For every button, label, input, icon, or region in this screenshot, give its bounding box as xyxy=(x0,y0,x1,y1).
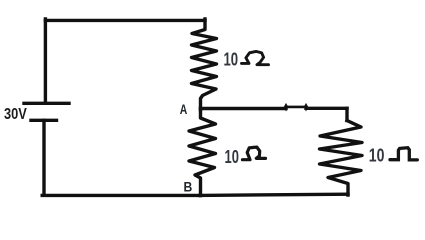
junction mark left on A wire xyxy=(284,104,288,111)
svg-text:10: 10 xyxy=(225,146,239,167)
junction mark right on A wire xyxy=(304,104,308,111)
svg-text:A: A xyxy=(180,102,188,117)
wire left vertical upper xyxy=(44,19,47,102)
svg-text:30V: 30V xyxy=(4,106,27,123)
ohm symbol of R3 (hand drawn squared omega) xyxy=(390,148,417,160)
wire top from battery to R1 xyxy=(45,19,205,22)
wire left vertical lower xyxy=(42,120,45,195)
battery V1 bottom plate xyxy=(31,119,57,122)
battery V1 top plate xyxy=(24,102,69,105)
resistor R1 zigzag xyxy=(192,19,217,110)
wire right vertical down to R3 xyxy=(345,108,348,120)
svg-text:10: 10 xyxy=(369,146,385,166)
resistor R3 zigzag xyxy=(320,121,363,196)
svg-text:10: 10 xyxy=(224,49,239,70)
svg-text:B: B xyxy=(184,179,193,195)
wire right switch mark to corner xyxy=(306,107,347,110)
resistor R2 zigzag xyxy=(189,109,216,196)
ohm symbol of R1 (hand drawn omega) xyxy=(242,51,269,64)
wire segment between switch marks xyxy=(286,106,306,109)
wire bottom from node B to R3 xyxy=(200,194,348,195)
wire bottom from battery to node B xyxy=(42,194,200,197)
wire node A to left switch mark xyxy=(201,107,287,110)
ohm symbol of R2 (hand drawn omega) xyxy=(243,147,266,160)
